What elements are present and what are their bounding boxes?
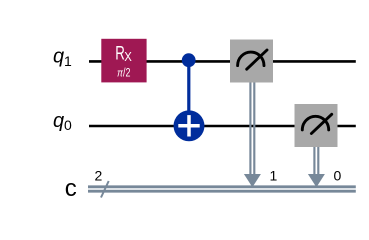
svg-text:q: q	[53, 110, 64, 132]
svg-text:q: q	[53, 45, 64, 67]
measure M1 double line down to c	[250, 82, 254, 178]
qubit label q0	[53, 110, 72, 133]
svg-text:2: 2	[95, 168, 103, 184]
qubit wire q1	[89, 60, 356, 63]
CX control dot on q1	[182, 53, 196, 67]
svg-text:π/2: π/2	[117, 67, 131, 79]
measure M2 box on q0	[295, 104, 338, 147]
svg-text:c: c	[65, 175, 77, 202]
measure M2 double line down to c	[314, 146, 318, 178]
svg-text:1: 1	[270, 168, 278, 184]
svg-text:1: 1	[64, 53, 72, 69]
measure M1 arrow head	[244, 174, 261, 187]
measure M2 arrow head	[308, 174, 325, 187]
gate RX (rx pi/2) U1	[101, 39, 146, 83]
qubit wire q0	[89, 125, 356, 128]
CX vertical connector	[187, 61, 190, 126]
svg-text:0: 0	[334, 168, 342, 184]
measure M1 box on q1	[230, 40, 273, 83]
svg-text:0: 0	[64, 117, 72, 133]
CX target on q0	[174, 110, 205, 141]
qubit label q1	[53, 45, 72, 68]
classical wire c (double rail)	[88, 187, 356, 191]
svg-text:X: X	[124, 50, 132, 64]
classical bundle slash	[101, 181, 109, 198]
